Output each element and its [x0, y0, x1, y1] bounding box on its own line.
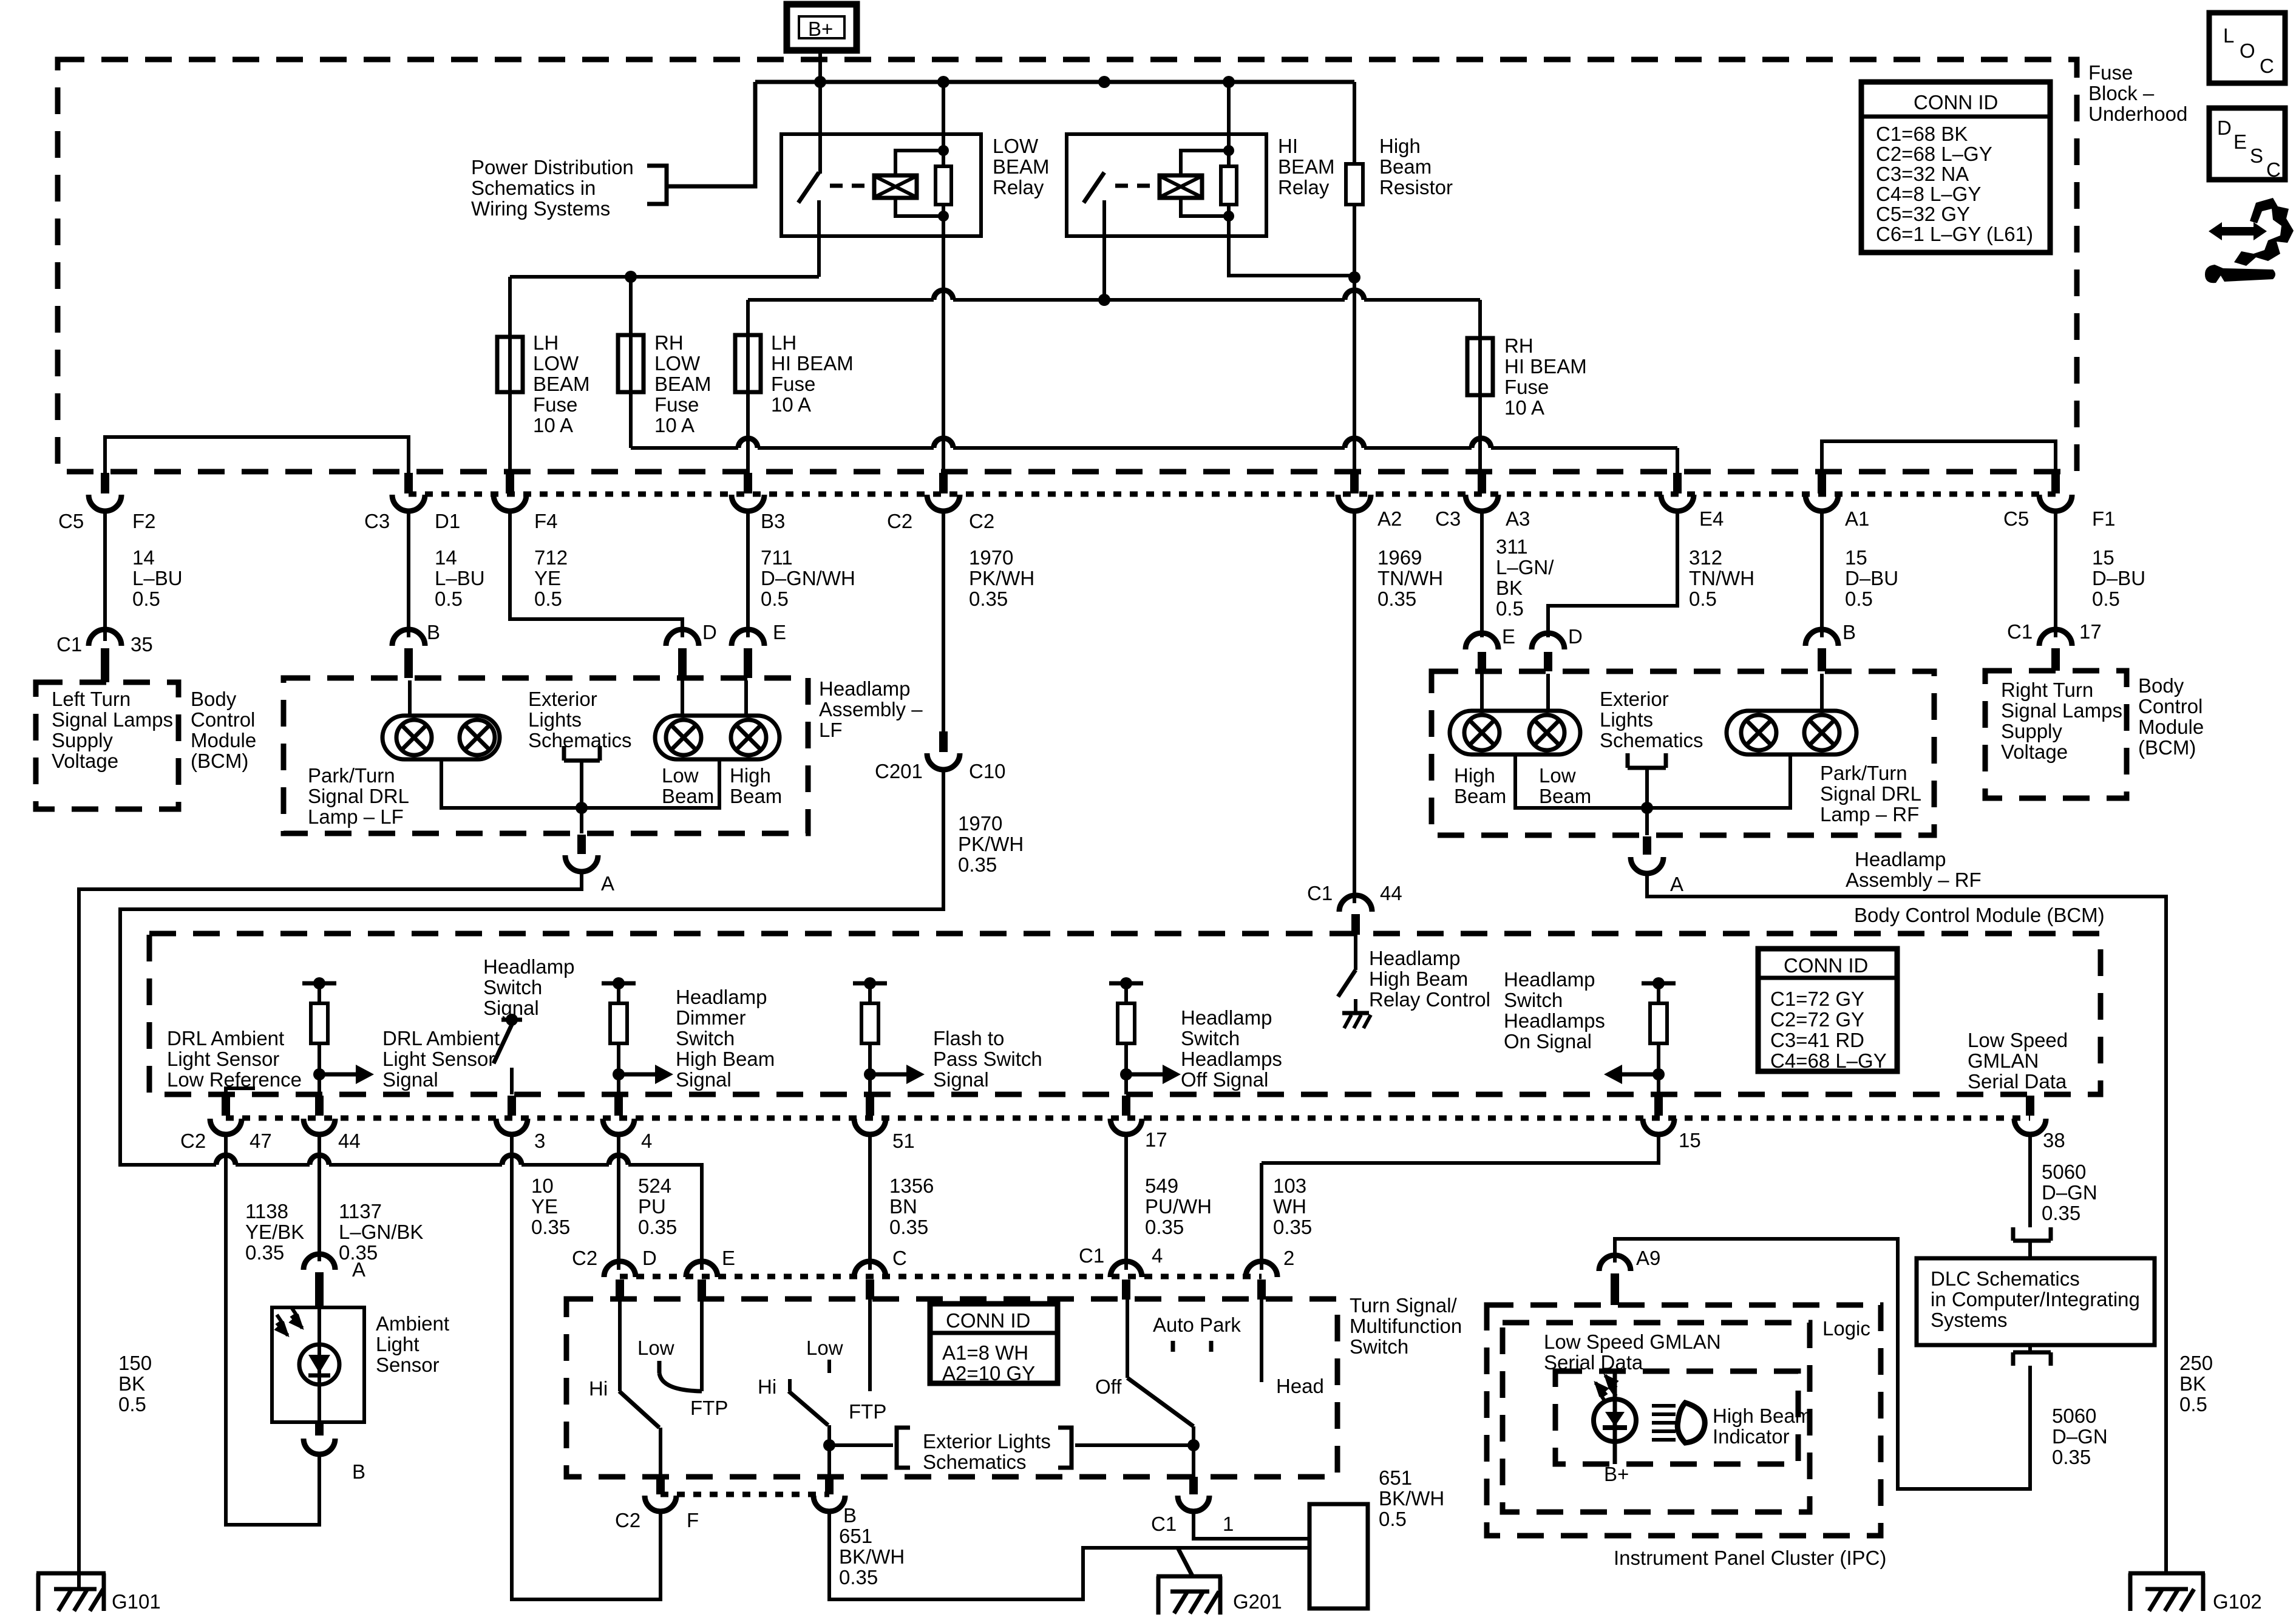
connector B dimmer — [813, 1477, 845, 1511]
svg-text:Multifunction: Multifunction — [1350, 1315, 1462, 1337]
svg-text:C1: C1 — [1079, 1244, 1104, 1267]
CONN ID table BCM — [1758, 949, 1897, 1072]
connector 15 — [1643, 1096, 1674, 1134]
svg-text:A9: A9 — [1636, 1247, 1660, 1269]
svg-text:Module: Module — [191, 729, 256, 751]
svg-text:Low Speed: Low Speed — [1968, 1029, 2068, 1051]
svg-text:Headlamp: Headlamp — [1369, 947, 1460, 969]
wire turn lamp supply left C5-D1 — [105, 437, 409, 473]
svg-text:RH: RH — [1504, 334, 1533, 357]
svg-text:Body: Body — [2138, 674, 2184, 697]
wire 524 PU pin4 down — [617, 1134, 620, 1270]
svg-text:1356: 1356 — [889, 1175, 934, 1197]
svg-text:Fuse: Fuse — [2088, 61, 2133, 84]
svg-text:F1: F1 — [2092, 507, 2116, 530]
wire rh low fuse to E4 with hops — [631, 448, 1677, 473]
svg-text:Right Turn: Right Turn — [2001, 679, 2093, 701]
switch blade — [798, 172, 819, 203]
exterior lights schematics callout RF — [1600, 688, 1703, 808]
connector E RF — [1466, 633, 1498, 671]
svg-text:Lights: Lights — [528, 708, 582, 731]
wire 311 L-GN/BK — [1480, 511, 1484, 637]
svg-text:0.35: 0.35 — [531, 1216, 570, 1238]
svg-text:DRL Ambient: DRL Ambient — [382, 1027, 500, 1049]
BCM internal: headlamp switch signal pin 3 — [494, 1014, 522, 1094]
fuse F-LH-LOW — [497, 277, 590, 473]
svg-text:0.35: 0.35 — [1273, 1216, 1312, 1238]
switch blade — [1084, 172, 1104, 203]
svg-text:Park/Turn: Park/Turn — [1820, 762, 1907, 784]
svg-text:10: 10 — [531, 1175, 554, 1197]
svg-text:1969: 1969 — [1377, 546, 1422, 569]
svg-text:17: 17 — [1145, 1128, 1167, 1151]
svg-text:Flash to: Flash to — [933, 1027, 1004, 1049]
wire 1970 PK/WH upper — [942, 511, 945, 731]
dotted inline harness row — [409, 492, 2056, 497]
svg-text:D–GN: D–GN — [2042, 1181, 2097, 1204]
LED high beam indicator — [1594, 1371, 1636, 1464]
svg-text:Schematics: Schematics — [1600, 729, 1703, 751]
svg-text:A1=8 WH: A1=8 WH — [942, 1341, 1028, 1364]
svg-text:D–GN: D–GN — [2052, 1425, 2108, 1448]
connector 47 — [210, 1096, 242, 1134]
exterior lights schematics callout LF — [528, 688, 632, 808]
mech link dashed — [830, 184, 872, 188]
exterior lights schematics callout switch — [829, 1428, 1194, 1473]
svg-text:Headlamp: Headlamp — [1181, 1006, 1272, 1029]
svg-text:0.35: 0.35 — [245, 1241, 284, 1264]
svg-text:C2: C2 — [180, 1130, 206, 1152]
LOC legend box — [2209, 13, 2285, 83]
connector C3/D1 — [392, 473, 425, 511]
svg-text:1: 1 — [1223, 1513, 1234, 1535]
svg-text:35: 35 — [131, 633, 153, 656]
svg-text:C3=41 RD: C3=41 RD — [1770, 1029, 1864, 1051]
svg-text:Light: Light — [376, 1333, 419, 1355]
connector C1/44 relay control — [1339, 895, 1372, 935]
svg-text:Left Turn: Left Turn — [52, 688, 131, 710]
svg-text:15: 15 — [1845, 546, 1867, 569]
wire coil to carry — [1181, 151, 1229, 216]
connector A RF — [1631, 836, 1663, 873]
svg-text:Block –: Block – — [2088, 82, 2155, 104]
ground G101 — [36, 1573, 106, 1611]
svg-text:C6=1 L–GY (L61): C6=1 L–GY (L61) — [1876, 223, 2033, 245]
svg-text:1970: 1970 — [969, 546, 1013, 569]
svg-text:Signal Lamps: Signal Lamps — [52, 708, 173, 731]
svg-text:F4: F4 — [534, 510, 558, 532]
svg-text:BK: BK — [118, 1372, 145, 1395]
svg-text:Serial Data: Serial Data — [1968, 1070, 2067, 1093]
svg-text:Wiring Systems: Wiring Systems — [471, 197, 610, 220]
BCM internal: DRL low reference pin 47 — [226, 1088, 255, 1094]
svg-text:Park/Turn: Park/Turn — [308, 764, 395, 787]
svg-text:Exterior: Exterior — [528, 688, 597, 710]
svg-text:5060: 5060 — [2052, 1405, 2096, 1427]
svg-text:L–BU: L–BU — [132, 567, 183, 589]
svg-text:Off Signal: Off Signal — [1181, 1068, 1268, 1091]
connector C3/A3 — [1466, 473, 1498, 511]
svg-text:G101: G101 — [112, 1590, 161, 1613]
svg-text:711: 711 — [761, 546, 793, 569]
wire coil to carry — [895, 151, 943, 216]
svg-text:Light Sensor: Light Sensor — [382, 1048, 495, 1070]
svg-text:A1: A1 — [1845, 507, 1869, 530]
connector B ambient sensor — [304, 1423, 335, 1454]
svg-text:Low: Low — [637, 1337, 674, 1359]
svg-text:0.5: 0.5 — [2179, 1393, 2207, 1415]
svg-text:Fuse: Fuse — [771, 373, 815, 395]
svg-text:Exterior Lights: Exterior Lights — [923, 1430, 1051, 1453]
svg-text:C2: C2 — [572, 1247, 597, 1269]
wire 1970 PK/WH loop around BCM — [120, 770, 943, 1270]
wire 712 YE — [510, 511, 682, 637]
relay U2 HI BEAM — [1067, 82, 1354, 300]
svg-text:C1=72 GY: C1=72 GY — [1770, 988, 1864, 1010]
wire lamp returns LF — [441, 759, 719, 808]
svg-text:FTP: FTP — [690, 1397, 728, 1419]
svg-text:(BCM): (BCM) — [2138, 736, 2196, 759]
lamp park/turn RF — [1727, 674, 1856, 754]
svg-text:0.5: 0.5 — [761, 588, 789, 610]
wire 711 D-GN/WH — [746, 511, 750, 637]
svg-text:Headlamp: Headlamp — [1504, 968, 1595, 991]
svg-text:Switch: Switch — [1504, 989, 1563, 1011]
svg-text:D: D — [702, 621, 717, 643]
connector C5/F1 — [2039, 473, 2072, 511]
svg-text:D1: D1 — [435, 510, 460, 532]
connector 44 — [304, 1096, 335, 1134]
svg-text:A: A — [1670, 873, 1683, 895]
svg-text:TN/WH: TN/WH — [1377, 567, 1443, 589]
svg-text:Lamp – RF: Lamp – RF — [1820, 803, 1919, 825]
svg-text:10 A: 10 A — [654, 414, 695, 436]
svg-text:Headlamp: Headlamp — [483, 955, 574, 978]
connector C1/17 right turn — [2039, 629, 2072, 671]
connector A9 IPC — [1599, 1255, 1631, 1305]
svg-text:LOW: LOW — [533, 352, 579, 375]
wire 549 PU/WH pin17 down — [1124, 1134, 1128, 1270]
fuse F-RH-HI — [1467, 300, 1587, 473]
svg-text:LOW: LOW — [654, 352, 701, 375]
svg-text:High: High — [730, 764, 771, 787]
svg-text:2: 2 — [1283, 1247, 1294, 1269]
svg-text:CONN ID: CONN ID — [1914, 91, 1998, 114]
svg-text:Relay: Relay — [1278, 176, 1330, 198]
BCM internal: flash to pass pin 51 — [853, 977, 925, 1094]
wire 1138 YE/BK pin47 down — [226, 1134, 319, 1525]
svg-text:Body: Body — [191, 688, 237, 710]
svg-text:Schematics in: Schematics in — [471, 177, 596, 199]
svg-text:PU/WH: PU/WH — [1145, 1195, 1212, 1218]
wire hi relay output rail y=494 with hops — [748, 298, 1480, 302]
svg-text:G102: G102 — [2213, 1590, 2262, 1613]
connector C multifunction — [854, 1261, 886, 1300]
CONN ID table fuse block — [1861, 82, 2050, 253]
DESC legend box — [2209, 108, 2285, 181]
svg-text:651: 651 — [839, 1525, 872, 1547]
wire 1137 L-GN/BK pin44 down — [318, 1134, 321, 1261]
connector 51 — [854, 1096, 886, 1134]
wire C1/1 to splice — [1194, 1511, 1309, 1539]
headlamp switch off blade — [1127, 1300, 1194, 1477]
svg-text:E4: E4 — [1699, 507, 1724, 530]
svg-text:0.35: 0.35 — [2042, 1202, 2080, 1224]
svg-text:Module: Module — [2138, 716, 2204, 738]
svg-text:Low Speed GMLAN: Low Speed GMLAN — [1544, 1331, 1721, 1353]
svg-text:D: D — [1568, 625, 1583, 648]
connector C5/F2 — [89, 473, 121, 511]
svg-text:Power Distribution: Power Distribution — [471, 156, 634, 178]
svg-text:CONN ID: CONN ID — [946, 1309, 1030, 1332]
svg-text:Low: Low — [1539, 764, 1576, 787]
svg-text:Control: Control — [2138, 695, 2203, 717]
svg-text:C2: C2 — [969, 510, 994, 532]
power distribution callout bracket — [647, 166, 667, 204]
wire 5060 D-GN pin38 to DLC — [2028, 1134, 2032, 1227]
ground G102 — [2128, 1573, 2205, 1611]
svg-text:Assembly – RF: Assembly – RF — [1846, 869, 1982, 891]
fuse F-LH-HI — [735, 300, 854, 473]
svg-text:Beam: Beam — [1379, 155, 1432, 178]
svg-text:Lights: Lights — [1600, 708, 1653, 731]
svg-text:651: 651 — [1379, 1466, 1412, 1489]
ground internal — [1342, 1011, 1369, 1015]
svg-text:Signal: Signal — [483, 997, 539, 1019]
connector B3 — [732, 473, 764, 511]
svg-text:C3=32 NA: C3=32 NA — [1876, 163, 1969, 185]
connector A1 — [1805, 473, 1838, 511]
ambient light sensor — [272, 1307, 364, 1422]
svg-text:Beam: Beam — [1454, 785, 1506, 807]
wire 15 D-BU A1 — [1820, 511, 1824, 637]
svg-text:Signal DRL: Signal DRL — [308, 785, 409, 807]
svg-text:17: 17 — [2079, 620, 2102, 643]
svg-text:C10: C10 — [969, 760, 1006, 782]
connector A2 — [1338, 473, 1371, 511]
svg-text:4: 4 — [641, 1130, 652, 1152]
dotted row multifunction connectors — [620, 1274, 1262, 1280]
svg-text:0.5: 0.5 — [1496, 597, 1524, 620]
svg-text:0.5: 0.5 — [118, 1393, 146, 1415]
svg-text:L: L — [2223, 24, 2234, 47]
svg-text:Resistor: Resistor — [1379, 176, 1453, 198]
wire bus left drop to power distribution — [667, 82, 755, 186]
svg-text:C2: C2 — [887, 510, 912, 532]
B+ power terminal — [787, 4, 857, 50]
CONN ID table multifunction — [930, 1304, 1058, 1385]
svg-text:Switch: Switch — [1181, 1027, 1240, 1049]
svg-text:44: 44 — [338, 1130, 361, 1152]
svg-text:LH: LH — [771, 331, 796, 354]
wire 5060 D-GN DLC to IPC — [1615, 1239, 2030, 1489]
svg-text:C1: C1 — [2007, 620, 2033, 643]
svg-text:Body Control Module (BCM): Body Control Module (BCM) — [1854, 904, 2105, 926]
connector C2/D dimmer — [604, 1261, 636, 1300]
svg-text:Low: Low — [662, 764, 699, 787]
BCM internal: DRL signal pin 44 — [302, 977, 374, 1094]
wire 10 YE pin3 down — [512, 1134, 661, 1599]
svg-text:BEAM: BEAM — [993, 155, 1050, 178]
svg-text:Underhood: Underhood — [2088, 103, 2187, 125]
svg-text:On Signal: On Signal — [1504, 1030, 1592, 1053]
svg-text:in Computer/Integrating: in Computer/Integrating — [1931, 1288, 2140, 1310]
switch headlamp high beam relay control — [1338, 935, 1371, 1028]
wire relay carry-through — [942, 82, 945, 473]
wire 103 WH head feed — [1260, 1163, 1263, 1270]
turn signal / multifunction switch box — [566, 1299, 1337, 1477]
svg-text:PK/WH: PK/WH — [969, 567, 1034, 589]
connector C1/35 left turn — [89, 629, 121, 682]
svg-text:Switch: Switch — [1350, 1335, 1408, 1358]
svg-text:549: 549 — [1145, 1175, 1178, 1197]
svg-text:G201: G201 — [1233, 1590, 1282, 1613]
svg-text:524: 524 — [638, 1175, 671, 1197]
svg-text:Assembly –: Assembly – — [819, 698, 923, 720]
svg-text:PU: PU — [638, 1195, 666, 1218]
svg-text:1138: 1138 — [245, 1200, 288, 1222]
svg-text:Voltage: Voltage — [52, 750, 118, 772]
connector B RF — [1805, 629, 1838, 671]
ground G201 — [1156, 1548, 1222, 1615]
connector 2 multifunction — [1246, 1261, 1277, 1300]
svg-text:C1: C1 — [1151, 1513, 1177, 1535]
svg-text:F: F — [687, 1509, 699, 1531]
svg-text:O: O — [2240, 39, 2255, 62]
svg-text:HI: HI — [1278, 135, 1298, 157]
svg-text:C5: C5 — [58, 510, 84, 532]
connector D RF — [1532, 633, 1564, 671]
connector E dimmer — [686, 1261, 718, 1300]
svg-text:0.5: 0.5 — [2092, 588, 2120, 610]
svg-text:Schematics: Schematics — [923, 1451, 1027, 1473]
svg-text:D–BU: D–BU — [2092, 567, 2145, 589]
svg-text:YE/BK: YE/BK — [245, 1221, 304, 1243]
svg-text:Low: Low — [806, 1337, 843, 1359]
svg-text:GMLAN: GMLAN — [1968, 1049, 2039, 1072]
svg-text:C1: C1 — [1307, 882, 1333, 904]
IPC outer box — [1487, 1305, 1881, 1536]
wire 14 L-BU left — [103, 511, 107, 641]
wire 1356 BN pin51 down — [868, 1134, 872, 1270]
svg-text:High Beam: High Beam — [676, 1048, 775, 1070]
svg-text:DRL Ambient: DRL Ambient — [167, 1027, 284, 1049]
svg-text:Signal: Signal — [382, 1068, 438, 1091]
svg-text:4: 4 — [1152, 1244, 1163, 1267]
svg-text:BK: BK — [2179, 1372, 2206, 1395]
svg-text:Supply: Supply — [2001, 720, 2062, 742]
svg-text:BK/WH: BK/WH — [839, 1545, 905, 1568]
svg-text:Pass Switch: Pass Switch — [933, 1048, 1042, 1070]
svg-text:0.35: 0.35 — [889, 1216, 928, 1238]
svg-text:PK/WH: PK/WH — [958, 833, 1024, 855]
svg-text:Head: Head — [1276, 1375, 1324, 1397]
svg-text:A2: A2 — [1377, 507, 1402, 530]
connector C2/F — [645, 1477, 676, 1511]
svg-text:B: B — [843, 1504, 857, 1527]
svg-text:Switch: Switch — [483, 976, 542, 998]
connector C201/C10 splice — [927, 731, 960, 770]
svg-text:L–GN/: L–GN/ — [1496, 556, 1554, 578]
svg-text:0.35: 0.35 — [638, 1216, 677, 1238]
service icon — [2205, 198, 2294, 283]
wire 312 TN/WH — [1548, 511, 1677, 637]
svg-text:B: B — [427, 621, 440, 643]
svg-text:0.35: 0.35 — [958, 853, 997, 876]
svg-text:E: E — [1502, 625, 1515, 648]
dimmer switch hi blade — [619, 1300, 702, 1477]
svg-text:CONN ID: CONN ID — [1784, 954, 1868, 977]
svg-text:FTP: FTP — [849, 1400, 886, 1423]
svg-text:LOW: LOW — [993, 135, 1039, 157]
svg-text:Schematics: Schematics — [528, 729, 632, 751]
svg-text:3: 3 — [534, 1130, 545, 1152]
svg-text:B+: B+ — [1604, 1463, 1629, 1485]
svg-text:TN/WH: TN/WH — [1689, 567, 1754, 589]
svg-text:103: 103 — [1273, 1175, 1306, 1197]
high beam indicator icon — [1652, 1403, 1705, 1443]
svg-text:Relay: Relay — [993, 176, 1044, 198]
BCM internal: headlamps on signal pin 15 — [1604, 977, 1676, 1094]
left turn signal lamps supply voltage box — [36, 682, 178, 809]
head contact — [1260, 1300, 1263, 1382]
svg-text:Fuse: Fuse — [533, 393, 577, 416]
wire A LF to G101 — [79, 872, 582, 1575]
svg-text:LF: LF — [819, 719, 843, 741]
resistor relay parallel — [936, 166, 951, 205]
svg-text:YE: YE — [534, 567, 561, 589]
svg-text:15: 15 — [2092, 546, 2114, 569]
svg-text:312: 312 — [1689, 546, 1722, 569]
svg-text:C2=68 L–GY: C2=68 L–GY — [1876, 143, 1992, 165]
svg-text:B: B — [1843, 621, 1856, 643]
splice box 651 — [1309, 1504, 1368, 1609]
svg-text:311: 311 — [1496, 535, 1528, 558]
svg-text:E: E — [773, 621, 786, 643]
resistor relay parallel — [1221, 166, 1237, 205]
fuse F-RH-LOW — [618, 277, 712, 448]
svg-text:Beam: Beam — [730, 785, 782, 807]
BCM internal: headlamps off signal pin 17 — [1109, 977, 1181, 1094]
svg-text:250: 250 — [2179, 1352, 2213, 1374]
svg-text:C: C — [2260, 55, 2274, 77]
svg-text:51: 51 — [892, 1130, 915, 1152]
svg-text:Switch: Switch — [676, 1027, 735, 1049]
svg-text:38: 38 — [2043, 1129, 2065, 1151]
connector 17 — [1110, 1096, 1142, 1134]
svg-text:0.5: 0.5 — [132, 588, 160, 610]
connector C2/C2 — [927, 473, 960, 511]
relay U1 LOW BEAM — [781, 82, 1050, 473]
connector 38 — [2014, 1096, 2046, 1134]
svg-text:Control: Control — [191, 708, 255, 731]
svg-text:Auto Park: Auto Park — [1153, 1314, 1241, 1336]
svg-text:712: 712 — [534, 546, 568, 569]
DLC schematics box — [1917, 1258, 2155, 1345]
svg-text:0.5: 0.5 — [1845, 588, 1873, 610]
svg-text:High: High — [1454, 764, 1495, 787]
svg-text:HI BEAM: HI BEAM — [1504, 355, 1587, 378]
flash to pass switch — [789, 1300, 870, 1477]
wire B 651 to splice — [829, 1511, 1309, 1599]
svg-text:Lamp – LF: Lamp – LF — [308, 805, 404, 828]
wire 15 D-BU F1 — [2054, 511, 2057, 637]
svg-text:Instrument Panel Cluster (IPC): Instrument Panel Cluster (IPC) — [1614, 1547, 1886, 1569]
wire B+ down to bus — [818, 52, 822, 174]
svg-text:Low Reference: Low Reference — [167, 1068, 302, 1091]
lamp low/high RF — [1450, 674, 1580, 754]
connector C1/4 multifunction — [1110, 1261, 1142, 1300]
